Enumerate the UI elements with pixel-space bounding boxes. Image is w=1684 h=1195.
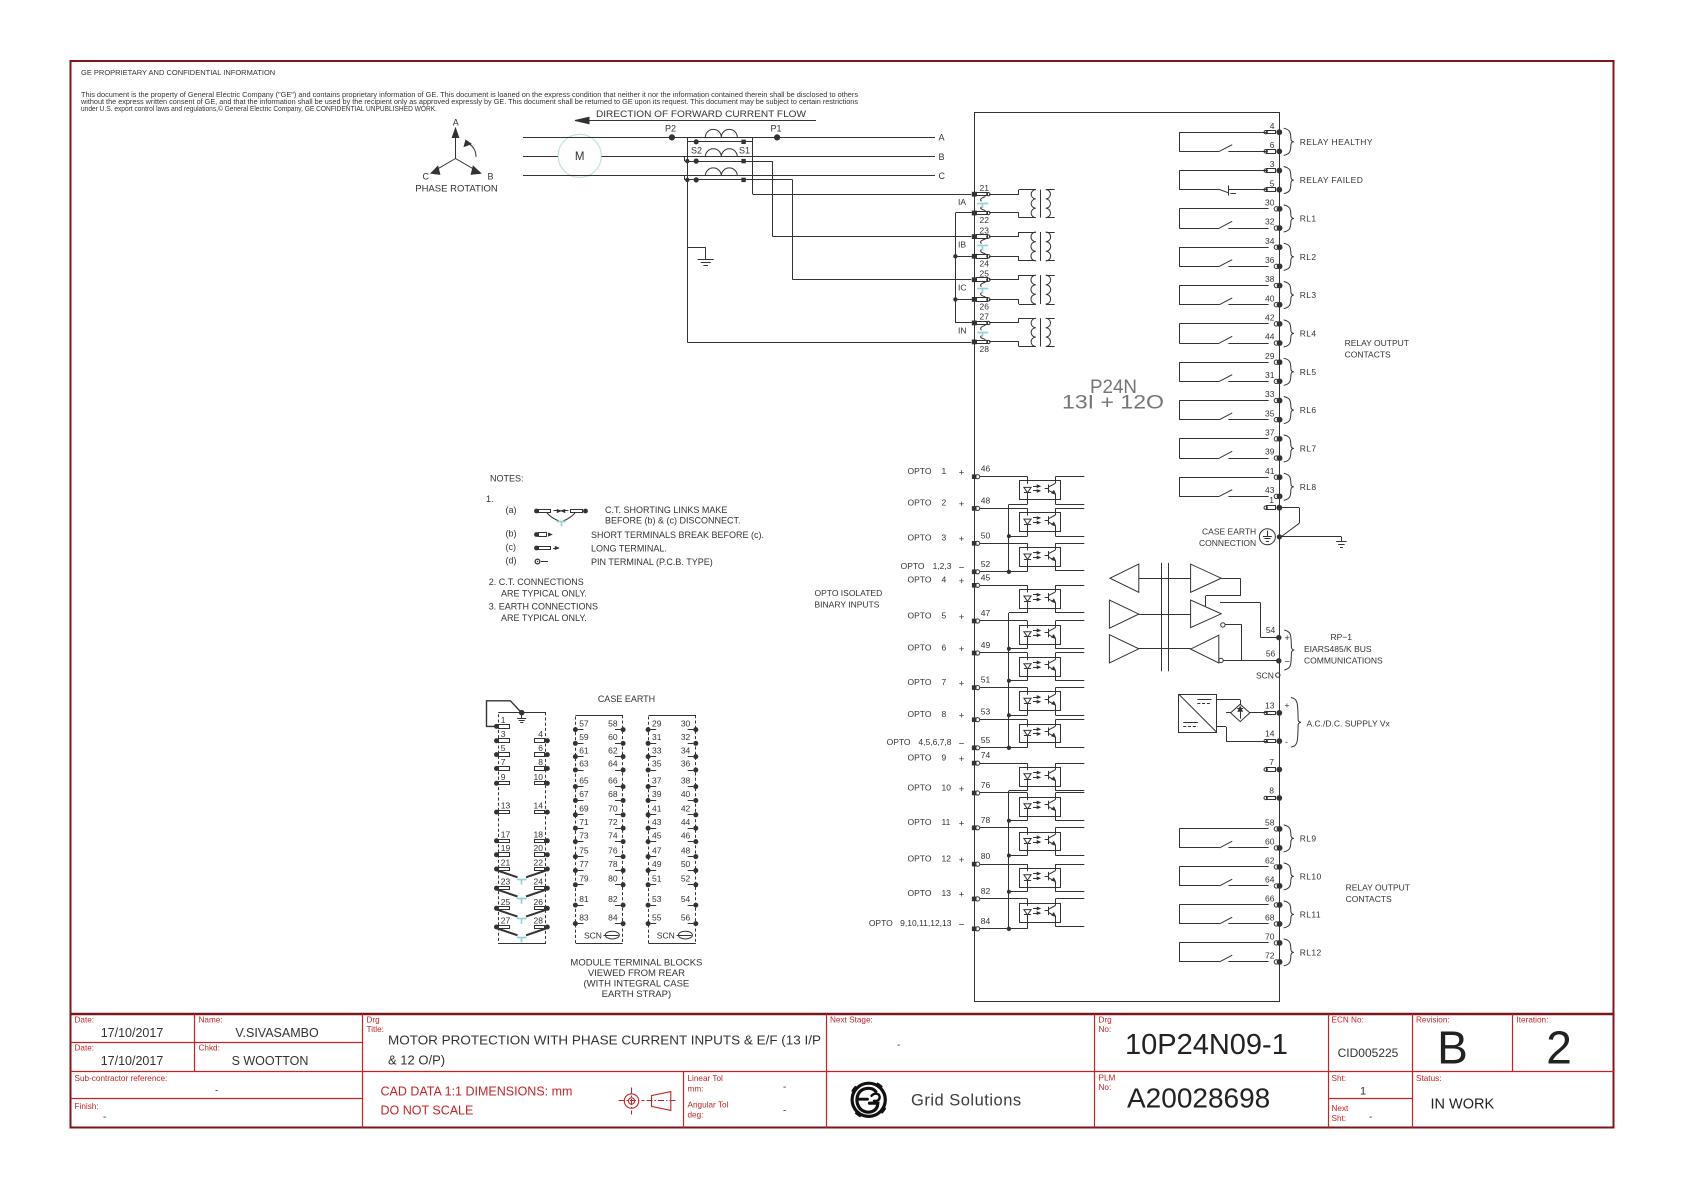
svg-text:deg:: deg: xyxy=(688,1111,704,1120)
svg-text:47: 47 xyxy=(652,845,662,855)
svg-text:4: 4 xyxy=(1270,121,1275,131)
svg-text:22: 22 xyxy=(980,215,990,225)
svg-text:& 12 O/P): & 12 O/P) xyxy=(388,1053,445,1068)
optocoupler for input at y793 xyxy=(980,792,1028,794)
direction of forward current flow arrow xyxy=(575,120,816,122)
svg-text:OPTO: OPTO xyxy=(869,918,893,928)
svg-text:Sht:: Sht: xyxy=(1332,1074,1347,1083)
svg-text:SHORT TERMINALS BREAK BEFORE (: SHORT TERMINALS BREAK BEFORE (c). xyxy=(591,530,764,540)
svg-text:+: + xyxy=(959,576,965,587)
svg-text:ARE TYPICAL ONLY.: ARE TYPICAL ONLY. xyxy=(501,589,587,599)
svg-text:A: A xyxy=(453,118,459,128)
svg-text:+: + xyxy=(959,819,965,830)
svg-text:OPTO: OPTO xyxy=(908,498,932,508)
svg-text:7: 7 xyxy=(1269,757,1274,767)
optocoupler for input at y476 xyxy=(980,476,1028,478)
terminal block middle outline xyxy=(576,716,623,944)
svg-text:14: 14 xyxy=(1265,729,1275,739)
svg-text:38: 38 xyxy=(1265,274,1275,284)
svg-text:30: 30 xyxy=(1265,198,1275,208)
svg-text:20: 20 xyxy=(534,843,544,853)
svg-text:26: 26 xyxy=(980,302,990,312)
integral earth strap xyxy=(487,701,521,727)
block terminal 55/56 xyxy=(646,921,651,926)
block terminal 79/80 xyxy=(573,882,578,887)
terminal 14 xyxy=(1267,740,1276,743)
svg-text:Status:: Status: xyxy=(1416,1074,1442,1083)
svg-text:64: 64 xyxy=(608,759,618,769)
svg-text:+: + xyxy=(959,534,965,545)
svg-text:73: 73 xyxy=(579,830,589,840)
svg-text:1: 1 xyxy=(942,466,947,476)
block terminal 27/28 xyxy=(494,925,499,930)
svg-text:C: C xyxy=(423,172,430,182)
block terminal 47/48 xyxy=(646,854,651,859)
svg-text:RL11: RL11 xyxy=(1300,909,1321,919)
svg-text:78: 78 xyxy=(608,859,618,869)
block terminal 37/38 xyxy=(646,784,651,789)
svg-text:ECN No:: ECN No: xyxy=(1332,1016,1364,1025)
svg-text:Date:: Date: xyxy=(75,1044,95,1053)
svg-text:OPTO: OPTO xyxy=(908,610,932,620)
opto minus wire xyxy=(980,571,1028,573)
terminal 1 case earth xyxy=(1267,506,1276,510)
relay contact RL12 terminals 70 72 xyxy=(1179,942,1268,944)
svg-text:C.T. SHORTING LINKS MAKE: C.T. SHORTING LINKS MAKE xyxy=(605,505,727,515)
svg-text:RL8: RL8 xyxy=(1300,482,1317,492)
relay contact RL10 terminals 62 64 xyxy=(1179,866,1268,868)
svg-text:43: 43 xyxy=(652,817,662,827)
CT primary winding phase C xyxy=(705,168,737,176)
block terminal 67/68 xyxy=(573,798,578,803)
phase line C xyxy=(523,175,935,177)
svg-text:7: 7 xyxy=(942,677,947,687)
svg-text:CID005225: CID005225 xyxy=(1338,1046,1399,1060)
svg-text:A.C./D.C. SUPPLY Vx: A.C./D.C. SUPPLY Vx xyxy=(1307,718,1391,728)
svg-text:25: 25 xyxy=(980,268,990,278)
svg-text:65: 65 xyxy=(579,775,589,785)
svg-text:Sht:: Sht: xyxy=(1332,1114,1347,1123)
terminal 26 xyxy=(972,297,977,302)
svg-text:58: 58 xyxy=(608,718,618,728)
svg-text:6: 6 xyxy=(1270,140,1275,150)
svg-text:OPTO: OPTO xyxy=(908,782,932,792)
svg-text:1,2,3: 1,2,3 xyxy=(933,561,952,571)
svg-text:48: 48 xyxy=(981,495,991,505)
svg-text:72: 72 xyxy=(608,817,618,827)
CT primary winding phase A xyxy=(705,129,737,137)
svg-text:−: − xyxy=(1284,657,1290,668)
svg-text:+: + xyxy=(1285,700,1290,710)
block terminal 71/72 xyxy=(573,826,578,831)
svg-text:(a): (a) xyxy=(506,505,517,515)
relay contact RL3 terminals 38 40 xyxy=(1179,285,1268,287)
svg-text:27: 27 xyxy=(980,312,990,322)
svg-text:Next: Next xyxy=(1332,1104,1350,1113)
svg-text:-: - xyxy=(783,1106,786,1117)
terminal block left outline xyxy=(499,713,546,944)
svg-text:RL1: RL1 xyxy=(1300,213,1317,223)
svg-text:18: 18 xyxy=(534,829,544,839)
relay contact RL1 terminals 30 32 xyxy=(1179,208,1268,210)
rs485 buffer triangle left 3 xyxy=(1109,635,1138,663)
svg-text:+: + xyxy=(1284,633,1290,644)
svg-text:Angular Tol: Angular Tol xyxy=(688,1101,729,1110)
svg-text:OPTO: OPTO xyxy=(908,853,932,863)
relay contact RL4 terminals 42 44 xyxy=(1179,323,1268,325)
svg-text:RL10: RL10 xyxy=(1300,871,1322,881)
svg-text:Title:: Title: xyxy=(367,1025,384,1034)
svg-text:−: − xyxy=(959,920,965,931)
svg-text:1: 1 xyxy=(501,715,506,725)
svg-text:2. C.T. CONNECTIONS: 2. C.T. CONNECTIONS xyxy=(489,577,584,587)
node P1 xyxy=(774,134,780,140)
svg-text:74: 74 xyxy=(981,750,991,760)
svg-text:24: 24 xyxy=(534,877,544,887)
svg-text:17/10/2017: 17/10/2017 xyxy=(101,1026,164,1040)
svg-text:70: 70 xyxy=(608,804,618,814)
svg-text:84: 84 xyxy=(608,912,618,922)
svg-text:4: 4 xyxy=(942,575,947,585)
svg-text:8: 8 xyxy=(538,757,543,767)
svg-text:+: + xyxy=(959,499,965,510)
svg-text:under U.S. export control laws: under U.S. export control laws and regul… xyxy=(81,105,437,113)
svg-text:37: 37 xyxy=(652,775,662,785)
phase line A xyxy=(523,137,935,139)
svg-text:(d): (d) xyxy=(506,556,517,566)
svg-text:9: 9 xyxy=(942,752,947,762)
phase rotation symbol xyxy=(455,133,457,159)
svg-text:55: 55 xyxy=(981,735,991,745)
svg-text:3: 3 xyxy=(1270,159,1275,169)
svg-text:29: 29 xyxy=(1265,351,1275,361)
svg-text:GE PROPRIETARY AND CONFIDENTIA: GE PROPRIETARY AND CONFIDENTIAL INFORMAT… xyxy=(81,68,275,77)
svg-text:SCN: SCN xyxy=(657,931,675,941)
svg-text:79: 79 xyxy=(579,874,589,884)
opto cathode common bus xyxy=(1008,613,1010,748)
svg-text:28: 28 xyxy=(980,344,990,354)
svg-text:EIARS485/K BUS: EIARS485/K BUS xyxy=(1304,644,1372,654)
svg-text:81: 81 xyxy=(579,894,589,904)
svg-text:56: 56 xyxy=(681,912,691,922)
svg-text:RELAY HEALTHY: RELAY HEALTHY xyxy=(1300,137,1373,147)
title block grid lines xyxy=(71,1071,1615,1073)
svg-text:49: 49 xyxy=(652,859,662,869)
svg-text:54: 54 xyxy=(1266,625,1276,635)
svg-text:35: 35 xyxy=(652,759,662,769)
svg-text:1: 1 xyxy=(1360,1086,1366,1098)
block terminal 3/4 xyxy=(494,738,499,743)
optocoupler for input at y543 xyxy=(980,543,1028,545)
svg-text:SCN: SCN xyxy=(584,931,602,941)
svg-text:45: 45 xyxy=(652,830,662,840)
svg-text:4: 4 xyxy=(538,729,543,739)
block terminal 83/84 xyxy=(573,921,578,926)
terminal 54 xyxy=(1276,635,1281,640)
svg-text:RL9: RL9 xyxy=(1300,833,1317,843)
svg-text:RL7: RL7 xyxy=(1300,443,1317,453)
relay contact RL11 terminals 66 68 xyxy=(1179,904,1268,906)
svg-text:+: + xyxy=(959,784,965,795)
wire to external ground xyxy=(1279,536,1341,538)
svg-text:71: 71 xyxy=(579,817,589,827)
svg-text:EARTH STRAP): EARTH STRAP) xyxy=(602,989,672,1000)
svg-text:CAD DATA 1:1 DIMENSIONS: mm: CAD DATA 1:1 DIMENSIONS: mm xyxy=(381,1085,573,1099)
svg-text:34: 34 xyxy=(681,745,691,755)
svg-text:+: + xyxy=(959,855,965,866)
svg-text:8: 8 xyxy=(942,709,947,719)
interposing CT coil 23-24 xyxy=(989,236,1019,238)
svg-text:23: 23 xyxy=(501,877,511,887)
svg-text:−: − xyxy=(959,739,965,750)
svg-text:21: 21 xyxy=(501,858,511,868)
svg-text:67: 67 xyxy=(579,789,589,799)
optocoupler for input at y898 xyxy=(980,898,1028,900)
svg-text:CASE EARTH: CASE EARTH xyxy=(1202,526,1256,536)
terminal 56 xyxy=(1276,658,1281,663)
opto cathode common bus xyxy=(1008,791,1010,929)
svg-text:(b): (b) xyxy=(506,529,517,539)
svg-text:46: 46 xyxy=(681,830,691,840)
block terminal 61/62 xyxy=(573,754,578,759)
svg-text:32: 32 xyxy=(681,732,691,742)
svg-text:50: 50 xyxy=(981,530,991,540)
svg-text:CONTACTS: CONTACTS xyxy=(1345,350,1391,360)
svg-text:A: A xyxy=(939,133,945,143)
svg-text:17: 17 xyxy=(501,829,511,839)
svg-text:23: 23 xyxy=(980,225,990,235)
svg-text:28: 28 xyxy=(534,916,544,926)
svg-text:51: 51 xyxy=(981,675,991,685)
svg-text:B: B xyxy=(939,152,945,162)
svg-text:40: 40 xyxy=(1265,293,1275,303)
svg-text:30: 30 xyxy=(681,718,691,728)
block terminal 7/8 xyxy=(494,766,499,771)
CT primary winding phase B xyxy=(705,149,737,157)
terminal block right outline xyxy=(649,716,696,944)
GE logo xyxy=(844,1075,894,1125)
projection symbol xyxy=(624,1094,638,1108)
svg-text:CONNECTION: CONNECTION xyxy=(1199,538,1256,548)
block terminal 35/36 xyxy=(646,768,651,773)
terminal 28 xyxy=(972,340,977,345)
svg-text:No:: No: xyxy=(1099,1025,1112,1034)
svg-text:+: + xyxy=(959,644,965,655)
block terminal 53/54 xyxy=(646,903,651,908)
svg-text:56: 56 xyxy=(1266,648,1276,658)
svg-text:33: 33 xyxy=(652,745,662,755)
terminal 22 xyxy=(972,211,977,216)
rs485 buffer triangle right 1 xyxy=(1191,564,1222,592)
svg-text:13I + 12O: 13I + 12O xyxy=(1062,393,1164,414)
svg-text:Drg: Drg xyxy=(1099,1016,1113,1025)
svg-text:76: 76 xyxy=(981,780,991,790)
svg-text:45: 45 xyxy=(981,572,991,582)
phase line B xyxy=(523,156,558,158)
svg-text:66: 66 xyxy=(608,775,618,785)
svg-text:C: C xyxy=(939,171,946,181)
svg-text:13: 13 xyxy=(501,801,511,811)
svg-text:26: 26 xyxy=(534,897,544,907)
svg-text:mm:: mm: xyxy=(688,1085,704,1094)
svg-text:43: 43 xyxy=(1265,485,1275,495)
svg-text:62: 62 xyxy=(1265,856,1275,866)
svg-text:RL2: RL2 xyxy=(1300,252,1317,262)
svg-text:75: 75 xyxy=(579,845,589,855)
title block top border xyxy=(71,1013,1615,1015)
svg-text:13: 13 xyxy=(942,888,952,898)
svg-text:V.SIVASAMBO: V.SIVASAMBO xyxy=(235,1026,319,1040)
svg-text:CONTACTS: CONTACTS xyxy=(1346,894,1392,904)
svg-text:50: 50 xyxy=(681,859,691,869)
svg-text:P2: P2 xyxy=(665,124,676,134)
relay contact RL5 terminals 29 31 xyxy=(1179,362,1268,364)
svg-text:12: 12 xyxy=(942,853,952,863)
svg-text:68: 68 xyxy=(608,789,618,799)
terminal 24 xyxy=(972,254,977,259)
block terminal 73/74 xyxy=(573,839,578,844)
optocoupler for input at y653 xyxy=(980,652,1028,654)
svg-text:21: 21 xyxy=(980,183,990,193)
svg-text:(WITH INTEGRAL CASE: (WITH INTEGRAL CASE xyxy=(584,978,690,989)
optocoupler for input at y763 xyxy=(980,763,1028,765)
terminal SCN xyxy=(1276,673,1280,677)
optocoupler for input at y585 xyxy=(980,585,1028,587)
svg-text:25: 25 xyxy=(501,897,511,907)
svg-text:3. EARTH CONNECTIONS: 3. EARTH CONNECTIONS xyxy=(489,602,598,612)
svg-text:OPTO: OPTO xyxy=(908,466,932,476)
svg-text:54: 54 xyxy=(681,894,691,904)
svg-text:ARE TYPICAL ONLY.: ARE TYPICAL ONLY. xyxy=(501,613,587,623)
svg-text:B: B xyxy=(488,172,494,182)
svg-text:39: 39 xyxy=(652,789,662,799)
isolation barrier xyxy=(1161,563,1163,671)
svg-text:S1: S1 xyxy=(739,146,750,156)
svg-text:Iteration:: Iteration: xyxy=(1517,1016,1549,1025)
svg-text:11: 11 xyxy=(942,817,951,827)
svg-text:RL3: RL3 xyxy=(1300,290,1317,300)
svg-text:BEFORE (b) & (c) DISCONNECT.: BEFORE (b) & (c) DISCONNECT. xyxy=(605,516,741,526)
earth tap wire xyxy=(687,247,705,249)
svg-text:6: 6 xyxy=(942,642,947,652)
svg-text:49: 49 xyxy=(981,640,991,650)
svg-text:Finish:: Finish: xyxy=(75,1102,99,1111)
comms routing wires xyxy=(1221,578,1240,580)
svg-text:RL4: RL4 xyxy=(1300,328,1317,338)
block terminal 49/50 xyxy=(646,868,651,873)
optocoupler for input at y621 xyxy=(980,620,1028,622)
svg-text:OPTO: OPTO xyxy=(901,561,925,571)
svg-text:62: 62 xyxy=(608,745,618,755)
svg-text:60: 60 xyxy=(1265,837,1275,847)
svg-text:58: 58 xyxy=(1265,818,1275,828)
svg-text:P1: P1 xyxy=(771,124,782,134)
ground symbol at CT star point xyxy=(698,259,714,261)
block terminal 33/34 xyxy=(646,754,651,759)
svg-text:RL5: RL5 xyxy=(1300,367,1317,377)
svg-text:9: 9 xyxy=(501,772,506,782)
svg-text:84: 84 xyxy=(981,916,991,926)
svg-text:6: 6 xyxy=(538,743,543,753)
interposing CT coil 21-22 xyxy=(989,194,1019,196)
block terminal 1 xyxy=(494,724,499,729)
svg-text:46: 46 xyxy=(981,464,991,474)
svg-text:IB: IB xyxy=(958,240,966,250)
svg-text:4,5,6,7,8: 4,5,6,7,8 xyxy=(918,737,951,747)
svg-text:+: + xyxy=(959,890,965,901)
svg-text:41: 41 xyxy=(652,804,662,814)
svg-text:61: 61 xyxy=(579,745,589,755)
svg-text:1.: 1. xyxy=(486,494,494,504)
svg-text:44: 44 xyxy=(1265,332,1275,342)
svg-text:9,10,11,12,13: 9,10,11,12,13 xyxy=(900,918,952,928)
svg-text:64: 64 xyxy=(1265,875,1275,885)
svg-text:RL12: RL12 xyxy=(1300,947,1322,957)
block terminal 45/46 xyxy=(646,839,651,844)
svg-text:No:: No: xyxy=(1099,1083,1112,1092)
svg-text:83: 83 xyxy=(579,912,589,922)
svg-text:10: 10 xyxy=(942,782,952,792)
svg-text:37: 37 xyxy=(1265,428,1275,438)
svg-text:Chkd:: Chkd: xyxy=(199,1044,220,1053)
svg-text:33: 33 xyxy=(1265,389,1275,399)
block terminal 43/44 xyxy=(646,826,651,831)
svg-text:M: M xyxy=(575,151,585,163)
svg-text:IA: IA xyxy=(958,197,966,207)
svg-text:LONG TERMINAL.: LONG TERMINAL. xyxy=(591,544,667,554)
svg-text:-: - xyxy=(103,1112,106,1123)
svg-text:48: 48 xyxy=(681,845,691,855)
terminal 27 xyxy=(972,321,977,326)
terminal 13 xyxy=(1267,712,1276,715)
svg-text:CASE EARTH: CASE EARTH xyxy=(598,694,655,704)
svg-text:PHASE ROTATION: PHASE ROTATION xyxy=(415,184,498,195)
svg-text:B: B xyxy=(1437,1022,1468,1074)
svg-text:27: 27 xyxy=(501,916,511,926)
svg-text:52: 52 xyxy=(681,874,691,884)
opto minus wire xyxy=(980,928,1028,930)
supply wires and rectifier xyxy=(1217,699,1241,701)
svg-text:66: 66 xyxy=(1265,894,1275,904)
svg-text:31: 31 xyxy=(1265,370,1275,380)
svg-text:19: 19 xyxy=(501,843,511,853)
svg-text:-: - xyxy=(783,1082,786,1093)
svg-text:10P24N09-1: 10P24N09-1 xyxy=(1125,1029,1288,1061)
rs485 buffer triangle left 1 xyxy=(1110,564,1139,592)
svg-text:OPTO: OPTO xyxy=(908,642,932,652)
svg-text:3: 3 xyxy=(942,533,947,543)
svg-text:17/10/2017: 17/10/2017 xyxy=(101,1054,164,1068)
CT shorting links on block xyxy=(498,871,518,878)
case earth symbol xyxy=(1259,529,1275,545)
ground symbol external xyxy=(1341,537,1343,542)
svg-text:S2: S2 xyxy=(691,146,702,156)
block terminal 25/26 xyxy=(494,906,499,911)
svg-text:+: + xyxy=(959,468,965,479)
svg-text:NOTES:: NOTES: xyxy=(490,474,524,484)
block terminal 51/52 xyxy=(646,882,651,887)
svg-text:Sub-contractor reference:: Sub-contractor reference: xyxy=(75,1074,168,1083)
svg-text:OPTO: OPTO xyxy=(908,677,932,687)
svg-text:2: 2 xyxy=(1546,1022,1572,1074)
svg-text:42: 42 xyxy=(1265,313,1275,323)
svg-text:+: + xyxy=(959,711,965,722)
svg-text:72: 72 xyxy=(1265,951,1275,961)
svg-text:74: 74 xyxy=(608,830,618,840)
svg-text:80: 80 xyxy=(608,874,618,884)
block terminal 81/82 xyxy=(573,903,578,908)
svg-text:Drg: Drg xyxy=(367,1016,381,1025)
